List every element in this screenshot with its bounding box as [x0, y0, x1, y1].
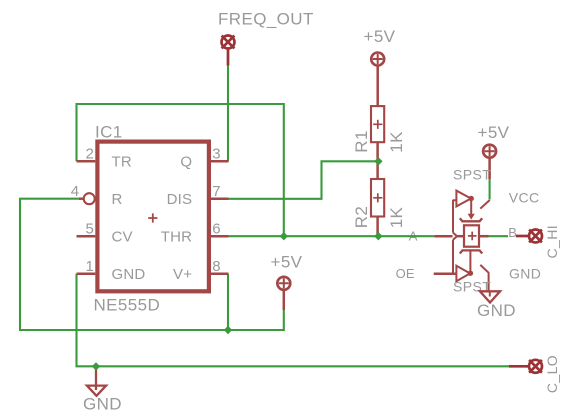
svg-text:FREQ_OUT: FREQ_OUT	[218, 10, 314, 29]
switch bottom plate	[460, 250, 482, 253]
supply +5V (top of R1)	[371, 53, 384, 107]
pad C_LO	[509, 360, 542, 373]
pin 6 THR	[211, 235, 229, 238]
R2 origin cross	[373, 193, 382, 202]
svg-text:GND: GND	[509, 265, 541, 281]
switch SPST1 triangle	[456, 191, 471, 207]
svg-text:GND: GND	[112, 266, 146, 283]
svg-text:R: R	[112, 191, 123, 208]
switch pin B	[479, 235, 489, 238]
svg-text:OE: OE	[396, 266, 415, 281]
svg-text:SPST: SPST	[453, 167, 491, 183]
svg-text:1: 1	[85, 258, 94, 275]
svg-text:DIS: DIS	[167, 191, 193, 208]
ground symbol under switch	[480, 291, 500, 302]
resistor R1	[371, 106, 384, 142]
switch stem lower	[469, 250, 471, 270]
svg-text:R2: R2	[352, 206, 371, 229]
switch SPST1 dot	[469, 196, 474, 201]
svg-text:GND: GND	[83, 394, 122, 413]
svg-text:NE555D: NE555D	[94, 296, 161, 315]
switch GND contact	[489, 273, 490, 296]
switch box left stub	[457, 235, 464, 238]
svg-text:4: 4	[71, 183, 80, 200]
wire net Q to FREQ_OUT	[227, 66, 229, 162]
resistor R2	[371, 179, 384, 217]
svg-text:+5V: +5V	[478, 123, 510, 142]
svg-text:7: 7	[212, 183, 221, 200]
pin 3 Q	[211, 160, 229, 163]
switch SPST2 triangle	[456, 266, 470, 282]
switch SPST2 dot	[468, 271, 473, 276]
switch pin OE	[434, 273, 457, 276]
pin 4 bubble	[84, 193, 95, 204]
pad FREQ_OUT	[222, 36, 235, 66]
wire net B to C_HI	[489, 235, 509, 237]
wire net GND pin1 down and C_LO rail	[77, 274, 510, 367]
junction R1/R2	[374, 157, 382, 165]
pin 7 DIS	[211, 198, 229, 201]
switch arrow upper	[468, 214, 475, 220]
switch SPST2 lever	[480, 265, 489, 273]
IC1 origin cross	[148, 213, 157, 222]
svg-text:R1: R1	[352, 130, 371, 153]
switch SPST1 lever	[480, 200, 490, 209]
pin 2 TR	[77, 160, 96, 163]
wire net V+ pin8 drop	[227, 274, 229, 330]
svg-text:5: 5	[85, 221, 94, 238]
svg-text:1K: 1K	[387, 206, 406, 228]
switch top plate	[460, 218, 482, 221]
switch box cross	[468, 232, 477, 241]
svg-text:+5V: +5V	[271, 253, 303, 272]
junction V+/rail	[224, 326, 232, 334]
pin 1 GND	[77, 273, 96, 276]
svg-text:1K: 1K	[387, 131, 406, 153]
svg-text:GND: GND	[477, 301, 516, 320]
switch stem upper	[470, 201, 472, 215]
wire net THR row A	[229, 235, 435, 237]
R1 lower pin	[376, 142, 379, 179]
svg-text:2: 2	[85, 146, 94, 163]
junction TR/THR	[280, 232, 288, 240]
junction R2/THR	[374, 232, 382, 240]
svg-text:3: 3	[212, 146, 221, 163]
pin 4 R lead	[79, 197, 84, 200]
svg-text:+5V: +5V	[364, 27, 396, 46]
svg-text:Q: Q	[180, 153, 192, 170]
svg-text:VCC: VCC	[509, 190, 540, 206]
svg-text:C_HI: C_HI	[544, 225, 560, 259]
svg-text:C_LO: C_LO	[544, 355, 560, 393]
R1 origin cross	[373, 120, 382, 129]
svg-text:CV: CV	[112, 228, 133, 245]
svg-text:TR: TR	[112, 153, 132, 170]
svg-text:8: 8	[212, 258, 221, 275]
wire net VCC of switch	[489, 179, 491, 199]
svg-text:B: B	[508, 225, 517, 240]
pad C_HI	[516, 230, 542, 243]
switch pole line	[453, 200, 456, 274]
IC IC1 NE555D body	[97, 142, 208, 292]
wire net DIS to R1/R2 junction	[229, 161, 379, 199]
R2 lower pin	[376, 217, 379, 237]
junction GND drop	[92, 362, 100, 370]
supply +5V (below IC)	[277, 277, 290, 310]
supply +5V (switch)	[483, 145, 496, 179]
switch box	[464, 225, 479, 246]
svg-text:6: 6	[212, 221, 221, 238]
svg-text:IC1: IC1	[95, 123, 123, 142]
switch pole chevron at A	[453, 233, 457, 240]
switch pin A	[434, 235, 452, 238]
wire net R/pin4 to bottom rail	[20, 199, 284, 330]
wire net TR loop (pin2 up, across top, down to THR junction)	[77, 104, 284, 236]
svg-text:V+: V+	[173, 266, 192, 283]
svg-text:THR: THR	[161, 228, 192, 245]
pin 5 CV	[77, 235, 96, 238]
ground symbol bottom left	[87, 366, 106, 396]
pin 8 V+	[211, 273, 229, 276]
